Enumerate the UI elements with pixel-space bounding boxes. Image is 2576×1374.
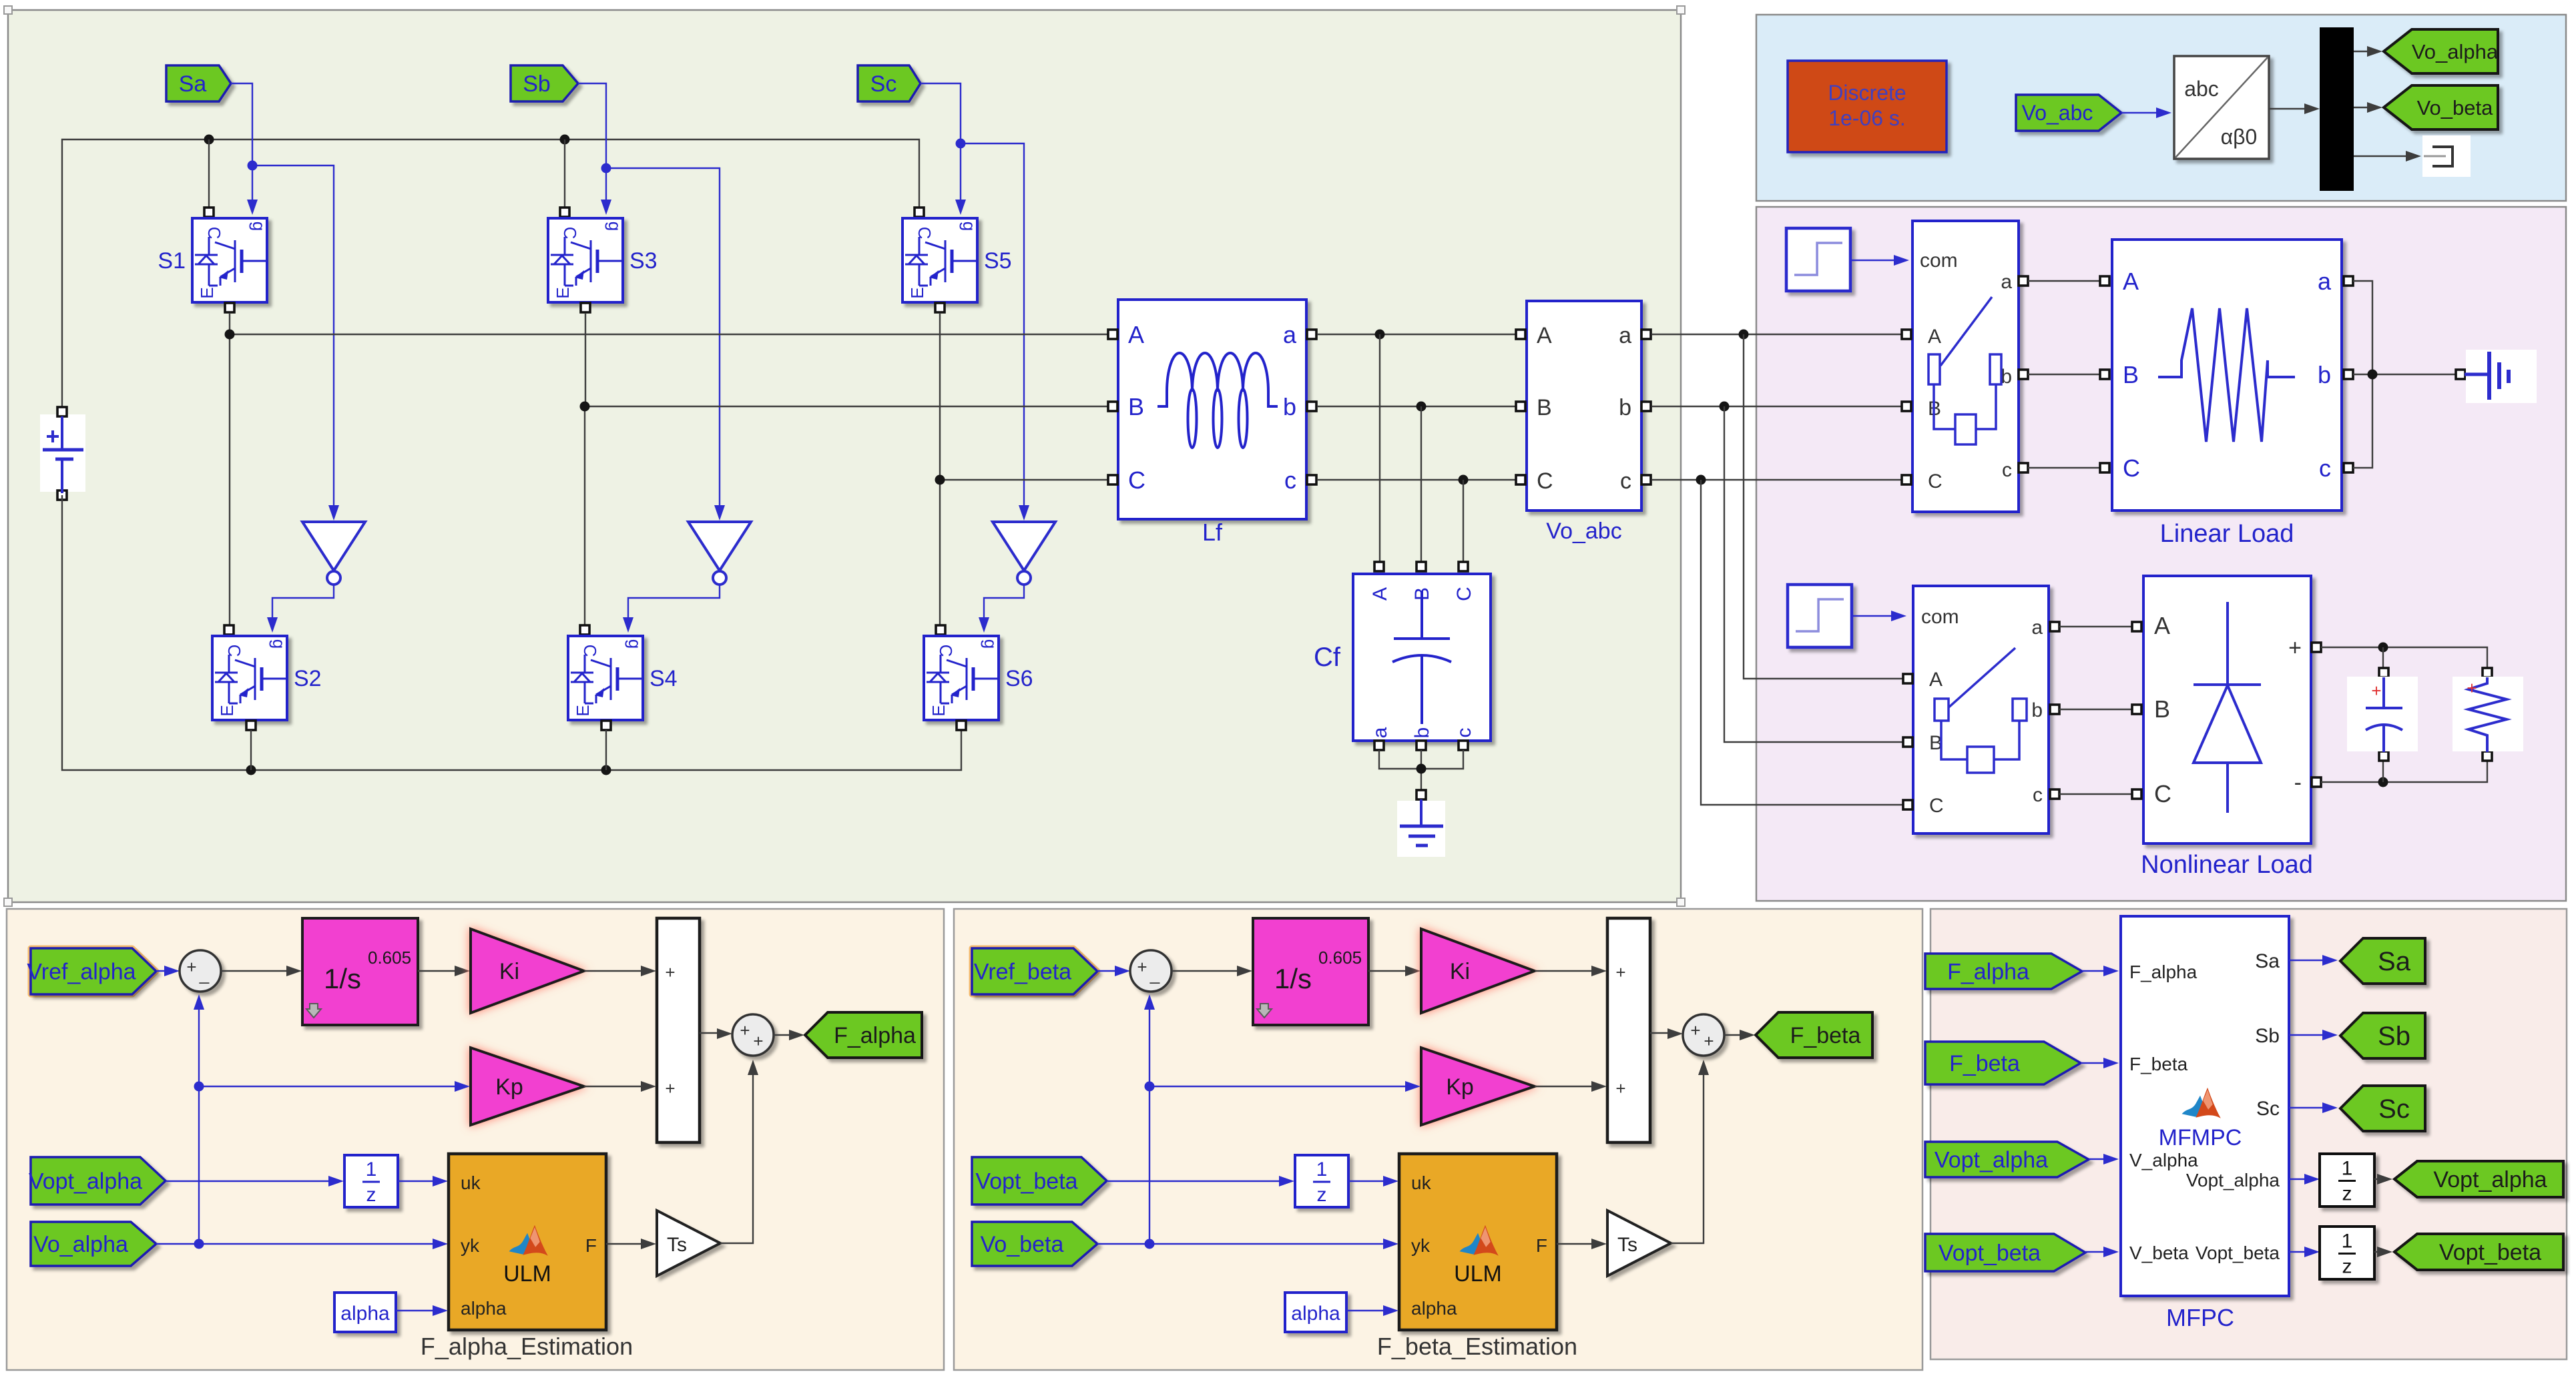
svg-text:uk: uk: [1411, 1172, 1432, 1193]
port NL minus: [2312, 777, 2321, 787]
gain Kp alpha: [471, 1048, 584, 1125]
svg-text:c: c: [1284, 466, 1296, 494]
wire NOT2 to S4 gate: [623, 585, 720, 633]
capacitor Cf: [1314, 574, 1491, 741]
svg-text:F_beta: F_beta: [1949, 1051, 2020, 1076]
svg-text:Sc: Sc: [2378, 1094, 2410, 1124]
port B1 A: [1902, 330, 1911, 339]
svg-text:g: g: [605, 222, 625, 231]
svg-text:F_beta: F_beta: [2129, 1054, 2188, 1074]
ground Cf: [1397, 799, 1445, 857]
port Vo_abc B: [1516, 402, 1525, 411]
svg-text:1/s: 1/s: [324, 963, 361, 994]
svg-text:alpha: alpha: [340, 1303, 390, 1325]
wire ULM F to Ts alpha: [606, 1239, 656, 1249]
outport tag F_beta: [1756, 1012, 1872, 1058]
port LL b: [2344, 370, 2353, 379]
terminator T1: [2422, 135, 2471, 177]
from tag Vo_abc: [2016, 95, 2121, 131]
transistor S6: [924, 636, 1033, 720]
svg-text:Sb: Sb: [2255, 1025, 2280, 1047]
svg-text:alpha: alpha: [1411, 1298, 1457, 1319]
svg-text:1/s: 1/s: [1274, 963, 1312, 994]
gain Ts alpha: [657, 1211, 720, 1276]
junction b to Cf: [1416, 402, 1427, 412]
wire a to breaker2 A: [1744, 334, 1904, 679]
svg-text:Vo_alpha: Vo_alpha: [2412, 40, 2499, 63]
svg-text:Sa: Sa: [179, 71, 207, 97]
port B1 B: [1902, 402, 1911, 411]
svg-text:z: z: [366, 1184, 376, 1206]
junction LL neutral: [2368, 370, 2378, 380]
svg-text:A: A: [1929, 669, 1943, 691]
wire integrator to Ki beta: [1368, 966, 1421, 976]
MATLAB function ULM alpha: [449, 1154, 606, 1330]
junction phase B: [580, 402, 590, 412]
port Lf b: [1307, 402, 1316, 411]
svg-text:c: c: [2319, 454, 2331, 482]
svg-text:C: C: [560, 227, 580, 240]
goto tag Vo_beta: [2384, 85, 2498, 129]
port NL B: [2132, 705, 2141, 714]
svg-text:Kp: Kp: [1446, 1074, 1474, 1100]
wire Ts to sum2 alpha: [720, 1060, 758, 1243]
port S1 emitter: [225, 303, 234, 312]
wire cap drop: [2382, 647, 2384, 667]
inductor Lf: [1118, 300, 1306, 546]
wire Step1 to breaker1 com: [1850, 255, 1909, 266]
svg-text:b: b: [1619, 395, 1631, 420]
wire c to breaker1 C: [1651, 479, 1904, 480]
svg-text:z: z: [1317, 1184, 1327, 1206]
port NL plus: [2312, 643, 2321, 652]
wire Vopt_beta to MFPC: [2085, 1247, 2119, 1257]
wire integrator to Ki alpha: [418, 966, 470, 976]
wire Vopt to delay alpha: [166, 1176, 344, 1186]
label F_alpha_Estimation: [421, 1333, 633, 1360]
svg-text:S3: S3: [629, 248, 658, 274]
port B2 A: [1903, 674, 1912, 683]
port B2 B: [1903, 737, 1912, 747]
svg-text:E: E: [197, 287, 217, 298]
fractional integrator 1/s 0.605 alpha: [302, 918, 418, 1025]
junction plus cap: [2378, 643, 2388, 653]
svg-text:c: c: [1453, 728, 1475, 738]
port Lf A: [1108, 330, 1117, 339]
port S3 collector: [560, 208, 569, 217]
svg-text:A: A: [2123, 268, 2139, 295]
port Cf c: [1459, 741, 1468, 750]
capacitor Cdc: [2347, 677, 2418, 752]
svg-text:A: A: [1128, 321, 1144, 348]
svg-text:Vo_abc: Vo_abc: [1546, 519, 1621, 544]
load Nonlinear Load: [2141, 576, 2313, 879]
outport tag F_alpha: [805, 1012, 922, 1058]
svg-text:Ts: Ts: [667, 1234, 687, 1256]
svg-text:S6: S6: [1005, 666, 1033, 691]
label F_beta_Estimation: [1377, 1333, 1577, 1360]
wire c line: [1317, 479, 1519, 480]
demux Vo: [2320, 27, 2354, 191]
svg-text:S5: S5: [984, 248, 1012, 274]
port res top: [2483, 668, 2492, 677]
svg-text:Kp: Kp: [495, 1074, 523, 1100]
svg-text:b: b: [2318, 361, 2331, 388]
wire NL plus rail: [2321, 647, 2487, 667]
svg-text:+: +: [740, 1020, 750, 1040]
DC source V1: [40, 407, 85, 500]
port B2 b: [2050, 705, 2059, 714]
sum block rect alpha: [657, 918, 700, 1142]
wire b line: [1317, 406, 1519, 407]
junction phase A: [225, 330, 235, 340]
wire phase B: [585, 313, 1111, 632]
step block Step1: [1786, 228, 1850, 291]
svg-text:C: C: [936, 645, 956, 657]
junction Sa branch: [248, 161, 258, 171]
wire ULM F to Ts beta: [1557, 1239, 1607, 1249]
svg-text:a: a: [2001, 271, 2012, 293]
MATLAB function ULM beta: [1399, 1154, 1557, 1330]
wire NL minus rail: [2321, 761, 2487, 782]
svg-text:Sa: Sa: [2255, 950, 2280, 972]
sum junction Sum2 alpha: [732, 1014, 774, 1056]
junction c nonlinear branch: [1696, 475, 1706, 485]
wire Cf drop a: [1379, 334, 1380, 563]
port S4 emitter: [601, 721, 611, 730]
wire Vopt_alpha to MFPC: [2089, 1154, 2119, 1164]
junction rail S2: [246, 765, 256, 775]
port S6 collector: [936, 625, 945, 635]
block Discrete powergui: [1788, 61, 1947, 152]
port Vo_abc a: [1641, 330, 1651, 339]
svg-text:Ki: Ki: [1450, 959, 1470, 984]
port NL C: [2132, 789, 2141, 799]
wire Cf drop c: [1463, 480, 1464, 563]
step block Step2: [1788, 585, 1852, 647]
wire feedback vertical alpha: [194, 994, 204, 1244]
port ground LL: [2456, 370, 2465, 379]
wire Sa to S1 gate: [231, 83, 258, 215]
breaker B2: [1913, 586, 2049, 833]
unit delay 1/z beta: [1295, 1155, 1348, 1207]
junction c to Cf: [1459, 475, 1469, 485]
inport tag Vo_beta: [972, 1222, 1097, 1266]
svg-text:-: -: [2294, 770, 2302, 795]
svg-text:1: 1: [1316, 1158, 1328, 1180]
wire Vo to yk alpha: [156, 1239, 448, 1249]
svg-text:c: c: [2033, 784, 2043, 806]
port S5 emitter: [935, 303, 945, 312]
svg-text:C: C: [2154, 780, 2171, 807]
svg-text:+: +: [753, 1031, 763, 1051]
wire Vref_alpha to sum: [156, 966, 180, 976]
wire demux to Vo_beta: [2354, 102, 2382, 113]
outport tag Sa: [2340, 938, 2425, 984]
port Lf B: [1108, 402, 1117, 411]
svg-text:Vo_beta: Vo_beta: [2417, 96, 2494, 119]
svg-text:B: B: [1128, 393, 1144, 420]
port B1 c: [2019, 463, 2028, 472]
wire Sb to S3 gate: [578, 83, 611, 215]
gain Kp beta: [1421, 1048, 1535, 1125]
svg-text:c: c: [1620, 468, 1631, 494]
svg-text:C: C: [580, 645, 600, 657]
junction a nonlinear branch: [1739, 330, 1749, 340]
svg-text:Sc: Sc: [2256, 1098, 2280, 1120]
wire sum to integrator alpha: [221, 966, 302, 976]
inport tag Vopt_alpha: [29, 1157, 166, 1205]
svg-text:E: E: [929, 705, 949, 716]
svg-text:αβ0: αβ0: [2221, 125, 2258, 149]
svg-text:a: a: [1619, 323, 1631, 348]
wire c to breaker2 C: [1701, 480, 1904, 805]
goto tag Vo_alpha: [2384, 29, 2499, 73]
wire B2 b to NL B: [2059, 709, 2132, 710]
wire B1 b to LL B: [2028, 374, 2100, 375]
svg-text:Vopt_beta: Vopt_beta: [975, 1168, 1077, 1194]
port Vo_abc C: [1516, 475, 1525, 484]
wire cap rise: [2382, 761, 2384, 782]
wire sum2 to F tag beta: [1724, 1030, 1755, 1040]
svg-text:E: E: [217, 705, 237, 716]
port Cf C: [1459, 562, 1468, 571]
wire sum2 to F tag alpha: [774, 1030, 804, 1040]
port LL C: [2100, 463, 2109, 472]
svg-text:1: 1: [2342, 1231, 2353, 1253]
port S3 emitter: [581, 303, 590, 312]
junction Sc branch: [956, 139, 966, 149]
svg-text:Vo_abc: Vo_abc: [2022, 101, 2093, 125]
unit delay 1/z Vopt_alpha: [2320, 1154, 2374, 1207]
svg-text:B: B: [2123, 361, 2139, 388]
svg-text:alpha: alpha: [1291, 1303, 1340, 1325]
port ground Cf: [1416, 790, 1426, 799]
svg-text:V_alpha: V_alpha: [2129, 1150, 2198, 1170]
svg-text:Vref_alpha: Vref_alpha: [27, 959, 136, 984]
svg-text:S2: S2: [294, 666, 322, 691]
svg-text:abc: abc: [2184, 77, 2219, 101]
wire Cf neutral: [1379, 750, 1463, 791]
panel measurement area (blue): [1756, 15, 2566, 201]
port B1 b: [2019, 370, 2028, 379]
goto tag Sb: [511, 65, 578, 101]
port LL A: [2100, 276, 2109, 286]
wire MFPC Sa: [2289, 955, 2338, 966]
svg-text:b: b: [1411, 727, 1433, 739]
port cap top: [2379, 668, 2388, 677]
port S4 collector: [580, 625, 589, 635]
inport tag Vo_alpha: [31, 1222, 156, 1266]
svg-text:g: g: [959, 222, 979, 231]
fractional integrator 1/s 0.605 beta: [1253, 918, 1368, 1025]
wire Vopt to delay beta: [1107, 1176, 1294, 1186]
svg-text:Vo_beta: Vo_beta: [981, 1232, 1064, 1257]
wire feedback to Kp beta: [1149, 1081, 1421, 1092]
svg-text:Ki: Ki: [499, 959, 519, 984]
svg-text:_: _: [1149, 964, 1160, 984]
junction a to Cf: [1375, 330, 1385, 340]
svg-text:B: B: [1537, 395, 1552, 420]
wire delay to uk alpha: [398, 1176, 448, 1186]
svg-text:Vref_beta: Vref_beta: [974, 959, 1071, 984]
outport tag Sc: [2340, 1086, 2425, 1131]
svg-text:V_beta: V_beta: [2129, 1243, 2189, 1263]
wire b to breaker2 B: [1724, 406, 1904, 742]
block abc to alphabeta: [2174, 56, 2269, 159]
wire S3 collector drop: [564, 139, 565, 211]
wire B1 a to LL A: [2028, 280, 2100, 282]
svg-text:Sa: Sa: [2378, 947, 2411, 976]
wire Step2 to breaker2 com: [1852, 611, 1906, 621]
svg-text:0.605: 0.605: [1318, 948, 1362, 968]
sum junction Sum1 beta: [1130, 950, 1172, 992]
svg-text:F_beta_Estimation: F_beta_Estimation: [1377, 1333, 1577, 1360]
svg-text:com: com: [1921, 606, 1959, 628]
panel MFPC (rose): [1930, 909, 2567, 1359]
port LL a: [2344, 276, 2353, 286]
svg-text:alpha: alpha: [461, 1298, 507, 1319]
svg-text:A: A: [1537, 323, 1552, 348]
wire B2 c to NL C: [2059, 793, 2132, 795]
wire Vref_beta to sum: [1097, 966, 1130, 976]
svg-text:+: +: [2288, 635, 2302, 661]
outport tag Vopt_alpha: [2394, 1161, 2563, 1197]
svg-text:Sb: Sb: [523, 71, 551, 97]
inport tag F_beta: [1925, 1042, 2081, 1084]
wire demux to terminator: [2354, 151, 2421, 161]
wire alpha to ULM beta: [1346, 1305, 1398, 1316]
svg-text:F_alpha: F_alpha: [2129, 962, 2198, 982]
svg-text:Vopt_beta: Vopt_beta: [2196, 1243, 2280, 1263]
port B1 C: [1902, 475, 1911, 484]
inport tag F_alpha: [1925, 954, 2082, 989]
svg-text:B: B: [2154, 695, 2170, 723]
svg-text:ULM: ULM: [503, 1261, 551, 1287]
port res bottom: [2483, 751, 2492, 761]
svg-text:Sb: Sb: [2378, 1022, 2410, 1051]
wire b to breaker1 B: [1651, 406, 1904, 407]
wire delay to Vopt_alpha tag: [2374, 1174, 2392, 1184]
svg-text:Linear Load: Linear Load: [2160, 520, 2294, 548]
svg-text:+: +: [186, 957, 196, 977]
port S2 emitter: [246, 721, 256, 730]
wire MFPC Vopt_alpha out: [2289, 1174, 2320, 1184]
panel load area (pink): [1756, 207, 2566, 901]
inport tag Vopt_beta: [972, 1157, 1107, 1205]
inport tag Vopt_beta in: [1925, 1234, 2085, 1271]
svg-text:b: b: [2001, 366, 2012, 388]
svg-text:Vopt_alpha: Vopt_alpha: [1935, 1147, 2048, 1172]
port Vo_abc b: [1641, 402, 1651, 411]
transistor S4: [568, 636, 678, 720]
wire MFPC Sc: [2289, 1102, 2338, 1113]
svg-text:F_alpha: F_alpha: [834, 1023, 916, 1048]
port B1 a: [2019, 276, 2028, 286]
block Vo_abc: [1527, 301, 1641, 544]
svg-text:b: b: [2031, 699, 2043, 721]
junction top bus S1: [204, 135, 214, 145]
port Vo_abc c: [1641, 475, 1651, 484]
svg-text:E: E: [573, 705, 593, 716]
wire MFPC Vopt_beta out: [2289, 1247, 2320, 1257]
port NL A: [2132, 622, 2141, 631]
constant alpha alpha: [334, 1293, 396, 1332]
port Lf a: [1307, 330, 1316, 339]
wire Sb to NOT2: [606, 168, 725, 521]
wire Kp to sumrect beta: [1535, 1081, 1607, 1092]
wire a line: [1317, 334, 1519, 335]
wire DC negative rail: [62, 495, 961, 770]
svg-text:1: 1: [2342, 1158, 2353, 1180]
wire delay to Vopt_beta tag: [2374, 1247, 2392, 1257]
wire Vo_abc to abc transform: [2121, 107, 2171, 118]
svg-text:C: C: [1453, 587, 1475, 601]
gain Ts beta: [1607, 1211, 1671, 1276]
wire delay to uk beta: [1348, 1176, 1398, 1186]
ground LL: [2465, 350, 2537, 403]
panel inverter area (green): [8, 10, 1681, 902]
wire phase A: [230, 313, 1111, 632]
panel F_beta estimation (beige): [954, 909, 1922, 1370]
inport tag Vopt_alpha in: [1925, 1142, 2089, 1177]
svg-text:C: C: [1537, 468, 1553, 494]
svg-text:+: +: [665, 1078, 675, 1098]
port S5 collector: [915, 208, 924, 217]
wire Vo to yk beta: [1097, 1239, 1398, 1249]
junction Sb branch: [601, 163, 611, 174]
svg-text:S1: S1: [158, 248, 186, 274]
controller MFPC: [2121, 916, 2289, 1331]
port Lf C: [1108, 475, 1117, 484]
wire Sc to S5 gate: [921, 83, 966, 215]
port Cf a: [1374, 741, 1384, 750]
svg-text:Vopt_alpha: Vopt_alpha: [2433, 1167, 2547, 1192]
port S1 collector: [204, 208, 214, 217]
gain Ki alpha: [471, 929, 584, 1013]
junction minus cap: [2378, 777, 2388, 787]
svg-text:F: F: [1536, 1235, 1547, 1256]
load Linear Load: [2112, 240, 2342, 548]
svg-text:A: A: [2154, 612, 2170, 639]
svg-text:z: z: [2342, 1256, 2352, 1278]
wire a to breaker1 A: [1651, 334, 1904, 335]
svg-text:C: C: [1928, 470, 1943, 492]
svg-text:Ts: Ts: [1617, 1234, 1637, 1256]
transistor S2: [212, 636, 322, 720]
wire S2 emitter to rail: [250, 730, 252, 770]
port Vo_abc A: [1516, 330, 1525, 339]
svg-text:Discrete: Discrete: [1828, 81, 1906, 105]
svg-text:1e-06 s.: 1e-06 s.: [1828, 106, 1906, 130]
svg-text:a: a: [1283, 321, 1297, 348]
svg-text:b: b: [1283, 393, 1296, 420]
logic NOT3: [993, 522, 1055, 585]
wire MFPC Sb: [2289, 1030, 2338, 1040]
svg-text:MFPC: MFPC: [2166, 1304, 2234, 1331]
svg-text:Lf: Lf: [1202, 519, 1223, 546]
outport tag Sb: [2340, 1013, 2425, 1058]
junction b nonlinear branch: [1720, 402, 1730, 412]
svg-text:+: +: [2467, 678, 2477, 698]
junction rail S4: [601, 765, 611, 775]
sum junction Sum1 alpha: [180, 950, 221, 992]
svg-text:com: com: [1920, 250, 1958, 272]
svg-text:g: g: [249, 222, 269, 231]
svg-text:MFMPC: MFMPC: [2159, 1125, 2242, 1150]
svg-text:1: 1: [366, 1158, 377, 1180]
port cap bottom: [2379, 751, 2388, 761]
